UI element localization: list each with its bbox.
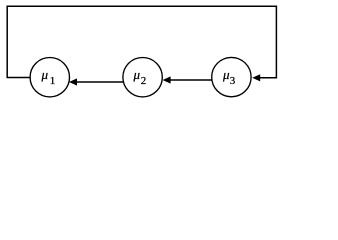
svg-text:μ: μ [133,67,141,82]
svg-text:μ: μ [41,67,49,82]
svg-text:2: 2 [141,75,147,87]
svg-text:3: 3 [230,75,236,87]
svg-text:1: 1 [50,75,56,87]
